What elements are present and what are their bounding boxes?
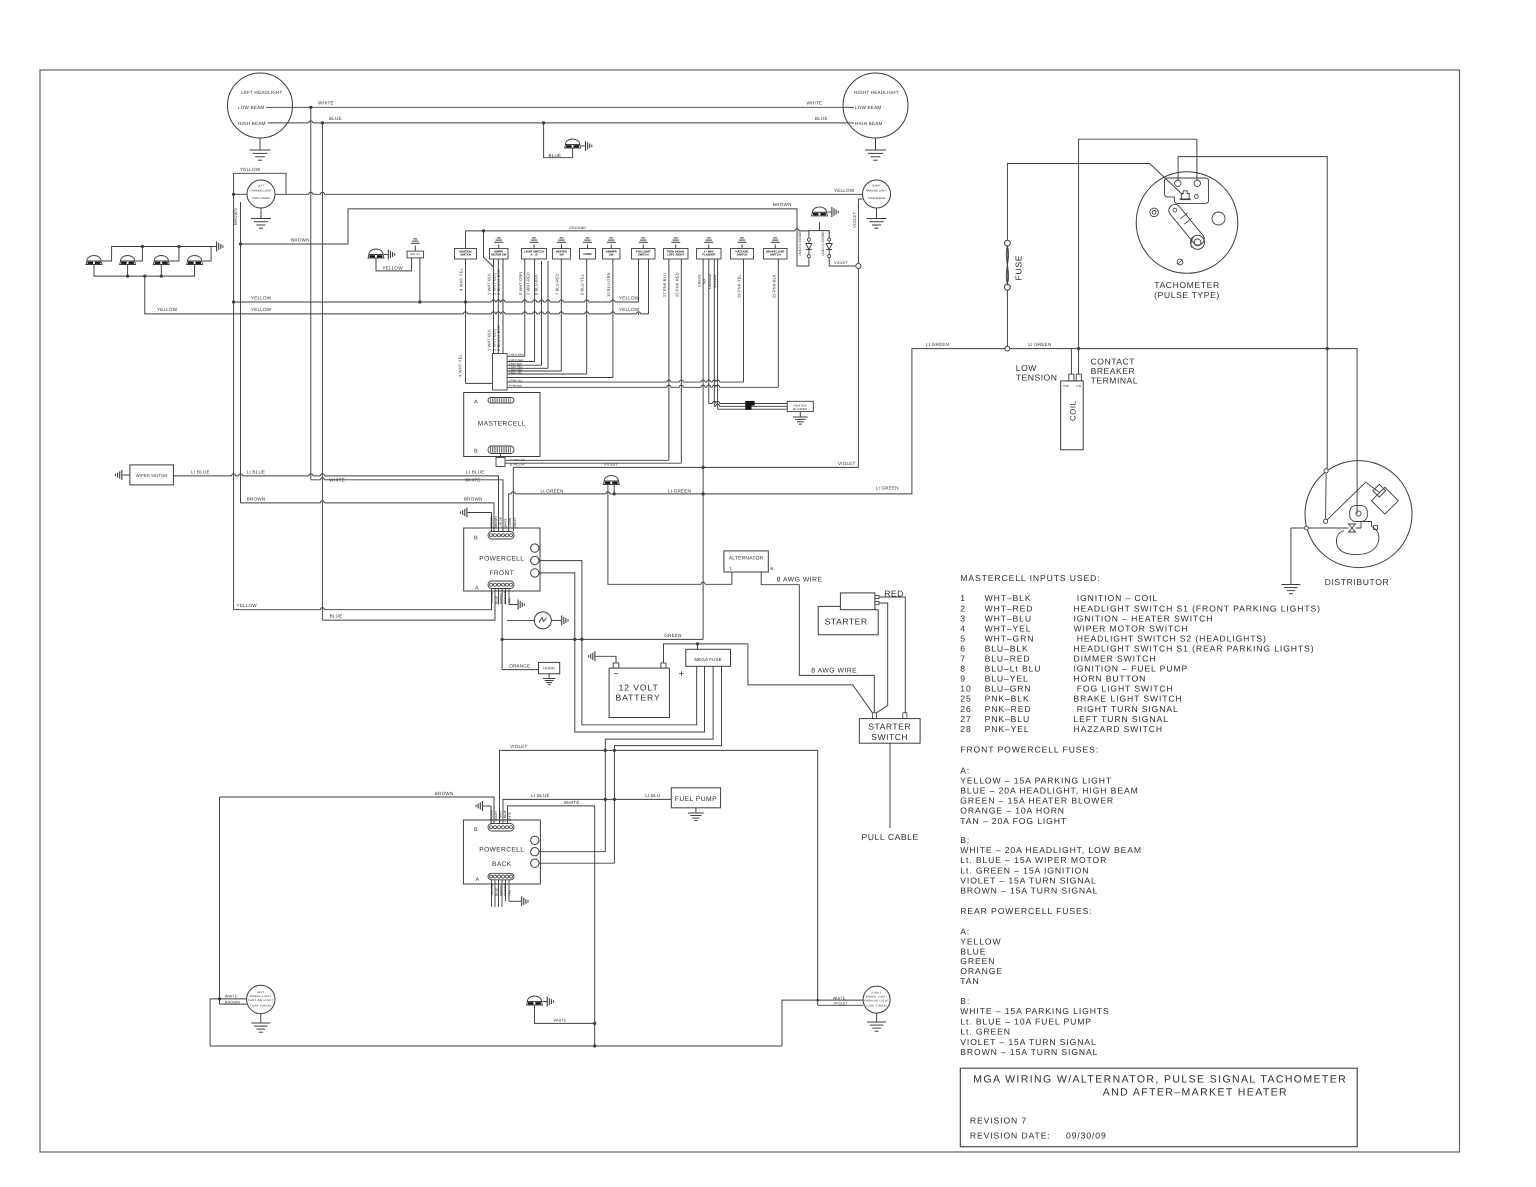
node blue bus tap xyxy=(321,121,324,124)
svg-text:7 BLU-RED: 7 BLU-RED xyxy=(554,273,559,295)
svg-text:RIGHT: RIGHT xyxy=(872,185,881,188)
svg-text:SWITCH: SWITCH xyxy=(460,254,471,257)
svg-text:ORANGE: ORANGE xyxy=(503,883,507,896)
svg-text:YELLOW: YELLOW xyxy=(619,307,640,312)
svg-text:BROWN: BROWN xyxy=(773,202,792,207)
right parking light / turn signal xyxy=(863,180,891,208)
wire pull cable xyxy=(889,743,891,828)
ground under left rear lamp xyxy=(260,1014,262,1023)
ground right of flasher xyxy=(551,619,561,621)
wire lamp right leg to lt green xyxy=(613,485,615,494)
svg-text:10: 10 xyxy=(960,684,971,694)
wire ORANGE to horn xyxy=(502,669,538,671)
svg-text:PULL CABLE: PULL CABLE xyxy=(862,832,919,842)
svg-text:VIOLET: VIOLET xyxy=(852,212,857,228)
svg-text:LEFT RIGHT: LEFT RIGHT xyxy=(667,254,684,257)
ground above switch box 6 xyxy=(610,245,612,249)
svg-text:8 PNK-BLK: 8 PNK-BLK xyxy=(509,385,523,388)
distributor condenser (diamond) xyxy=(1372,487,1399,514)
svg-text:WHITE: WHITE xyxy=(465,478,481,483)
title box xyxy=(960,1068,1357,1147)
svg-text:RIGHT TURN SIGNAL: RIGHT TURN SIGNAL xyxy=(1074,704,1179,714)
svg-text:A:: A: xyxy=(960,765,970,775)
wire powercell front circle2 to mega fuse (ring1) xyxy=(539,561,697,725)
tach terminal door xyxy=(1181,191,1189,199)
svg-text:YELLOW: YELLOW xyxy=(251,295,272,300)
svg-text:NO: NO xyxy=(703,278,707,284)
svg-text:BLU–Lt BLU: BLU–Lt BLU xyxy=(985,664,1042,674)
wire BLUE high-beam bus xyxy=(288,122,848,124)
wire mastercell fan row 3 xyxy=(507,364,541,366)
svg-text:8 AWG WIRE: 8 AWG WIRE xyxy=(777,576,823,583)
wire col 4 WHT-YEL xyxy=(465,259,467,383)
ground right of below-A cluster xyxy=(509,604,517,606)
svg-text:BLU–BLK: BLU–BLK xyxy=(985,643,1029,653)
switch box 1 xyxy=(455,249,477,260)
wire left rear lamp brown stub xyxy=(220,1003,247,1005)
svg-text:WHITE – 15A PARKING LIGHTS: WHITE – 15A PARKING LIGHTS xyxy=(960,1006,1109,1016)
svg-text:A B: A B xyxy=(531,254,538,257)
svg-text:WHITE: WHITE xyxy=(503,518,507,528)
svg-text:PARKING LIGHT: PARKING LIGHT xyxy=(864,1000,889,1003)
svg-text:28: 28 xyxy=(960,724,971,734)
svg-text:BROWN – 15A TURN SIGNAL: BROWN – 15A TURN SIGNAL xyxy=(960,886,1098,896)
wire lamp left leg to alternator field xyxy=(608,485,732,585)
wire alternator B 8AWG to starter switch xyxy=(761,572,874,713)
svg-text:9 BLU-YEL: 9 BLU-YEL xyxy=(509,371,523,374)
svg-text:BLUE: BLUE xyxy=(495,888,499,896)
svg-text:TACHOMETER: TACHOMETER xyxy=(1154,280,1220,290)
wire diodes to violet node xyxy=(829,258,855,266)
svg-text:Lt GREEN: Lt GREEN xyxy=(876,485,899,490)
svg-text:BROWN: BROWN xyxy=(233,208,238,225)
left headlight xyxy=(228,73,293,138)
lamp above diodes xyxy=(812,212,828,216)
wire mega fuse to powercell back mid (ring3) xyxy=(605,666,713,851)
solenoid terminals xyxy=(875,595,879,598)
svg-text:Lt BLUE: Lt BLUE xyxy=(247,469,266,474)
ground above switch box 3 xyxy=(533,245,535,249)
svg-text:SWITCH: SWITCH xyxy=(770,254,781,257)
svg-text:A: A xyxy=(474,400,478,406)
svg-text:6 BLU-Lt BLU: 6 BLU-Lt BLU xyxy=(496,269,501,295)
svg-text:WIPER MOTOR SWITCH: WIPER MOTOR SWITCH xyxy=(1074,623,1189,633)
fog lamp row xyxy=(86,261,102,265)
switch box 8 xyxy=(664,249,689,260)
svg-text:CB: CB xyxy=(1076,384,1081,388)
switch box 3 xyxy=(522,249,547,260)
right rear lamp xyxy=(863,986,890,1013)
svg-text:MGA WIRING W/ALTERNATOR, PU: MGA WIRING W/ALTERNATOR, PULSE SIGNAL TA… xyxy=(973,1074,1347,1086)
svg-text:SW: SW xyxy=(1063,384,1069,388)
relay box under mastercell B xyxy=(496,458,505,467)
wire YELLOW bus into powercell A xyxy=(234,605,492,610)
svg-text:Lt. BLUE – 15A WIPER MOTO: Lt. BLUE – 15A WIPER MOTOR xyxy=(960,855,1107,865)
svg-text:9 PNK-YEL: 9 PNK-YEL xyxy=(509,379,523,382)
ground under left parking light xyxy=(260,208,262,219)
svg-text:HORN: HORN xyxy=(543,667,555,671)
svg-text:B:: B: xyxy=(960,835,970,845)
svg-text:TURN SIGNAL: TURN SIGNAL xyxy=(252,197,271,200)
svg-text:TAN: TAN xyxy=(508,890,512,896)
svg-text:AND AFTER–MARKET HEATER: AND AFTER–MARKET HEATER xyxy=(1103,1087,1288,1099)
wire YELLOW parking bus xyxy=(234,193,247,195)
switch box 7 xyxy=(632,249,656,260)
wire violet from right parking light xyxy=(858,199,862,263)
svg-text:7: 7 xyxy=(960,654,966,664)
svg-text:IGNITION – HEATER SWITCH: IGNITION – HEATER SWITCH xyxy=(1074,613,1214,623)
svg-text:WHITE – 20A HEADLIGHT, LOW: WHITE – 20A HEADLIGHT, LOW BEAM xyxy=(960,845,1142,855)
svg-text:WHITE: WHITE xyxy=(318,101,334,106)
svg-text:B: B xyxy=(474,449,478,455)
svg-text:BRAKE LIGHT: BRAKE LIGHT xyxy=(866,996,888,999)
svg-text:TURN SIGNAL: TURN SIGNAL xyxy=(867,197,886,200)
svg-text:WIPER MOTOR: WIPER MOTOR xyxy=(136,473,168,478)
svg-text:BLUE: BLUE xyxy=(960,946,986,956)
svg-text:8 BLU-BLK: 8 BLU-BLK xyxy=(533,274,538,295)
below-A wires xyxy=(491,589,493,605)
svg-text:8 AWG WIRE: 8 AWG WIRE xyxy=(811,667,857,674)
svg-text:PARKING LIGHT: PARKING LIGHT xyxy=(866,190,887,193)
distributor rotor hook xyxy=(1349,524,1356,532)
svg-text:FLASHER: FLASHER xyxy=(702,254,715,257)
svg-text:HIGH BEAM: HIGH BEAM xyxy=(855,121,883,126)
wire back circle2 xyxy=(539,851,605,853)
wire ground tap to wiper switch col xyxy=(484,231,494,267)
svg-text:POWERCELL: POWERCELL xyxy=(479,847,524,854)
svg-text:B: B xyxy=(474,536,478,542)
svg-text:BACK: BACK xyxy=(492,861,512,868)
12 volt battery box xyxy=(609,668,669,717)
node violet (open) xyxy=(856,263,861,268)
ground above switch box 9 xyxy=(708,245,710,249)
node brown tee xyxy=(239,242,242,245)
svg-text:LEFT HEADLIGHT: LEFT HEADLIGHT xyxy=(241,90,283,95)
svg-text:YELLOW: YELLOW xyxy=(713,274,717,289)
svg-text:WHT–GRN: WHT–GRN xyxy=(985,633,1035,643)
wire tach pin1 to distributor xyxy=(1178,157,1327,469)
mega fuse top pin xyxy=(697,644,699,649)
wire BROWN drop to powercell xyxy=(241,503,495,532)
wire lt green into distributor xyxy=(1356,511,1358,514)
wire YELLOW lower bus xyxy=(234,313,649,315)
svg-text:SW: SW xyxy=(559,254,564,257)
powercell back output circles xyxy=(531,836,539,844)
wire blue to panel lamp xyxy=(544,123,573,158)
svg-text:LOW BEAM: LOW BEAM xyxy=(238,105,264,110)
ground above switch box 10 xyxy=(741,245,743,249)
svg-text:Lt GREEN: Lt GREEN xyxy=(668,489,691,494)
wire mastercell fan row 1 xyxy=(507,355,525,357)
svg-text:BLU–RED: BLU–RED xyxy=(985,654,1031,664)
svg-text:B: B xyxy=(770,566,773,571)
svg-text:26 PNK-RED: 26 PNK-RED xyxy=(674,272,679,297)
svg-text:WHT–BLK: WHT–BLK xyxy=(985,593,1032,603)
wire YELLOW upper bus xyxy=(234,301,639,303)
svg-text:YELLOW: YELLOW xyxy=(251,307,272,312)
svg-text:CONTACT: CONTACT xyxy=(1091,357,1136,367)
DISTRIBUTOR circle xyxy=(1305,461,1412,568)
svg-text:BATTERY: BATTERY xyxy=(616,693,661,703)
svg-text:SWITCH: SWITCH xyxy=(638,254,649,257)
svg-text:TAN: TAN xyxy=(508,598,512,604)
svg-text:RELAY: RELAY xyxy=(410,253,420,256)
ground under right rear lamp xyxy=(876,1013,878,1022)
svg-text:GREEN: GREEN xyxy=(960,956,995,966)
STARTER SWITCH box xyxy=(859,719,920,744)
svg-text:BLOWER: BLOWER xyxy=(793,407,808,411)
wire violet pin drop xyxy=(512,467,514,531)
svg-text:+: + xyxy=(679,669,685,680)
wire cols from light switch xyxy=(524,259,526,356)
COIL box xyxy=(1061,381,1084,450)
svg-text:POWERCELL: POWERCELL xyxy=(479,556,524,563)
svg-text:Lt BLUE: Lt BLUE xyxy=(531,793,550,798)
svg-text:LEFT: LEFT xyxy=(257,991,265,994)
ground left of battery xyxy=(594,651,596,661)
wire violet node down to violet bus xyxy=(857,269,859,468)
svg-text:2 WHT-RED: 2 WHT-RED xyxy=(509,359,523,362)
svg-text:−: − xyxy=(614,669,620,679)
svg-text:ORANGE: ORANGE xyxy=(708,273,712,289)
fog lamp bottom bus xyxy=(94,265,195,277)
wire 4 WHT-YEL into connector xyxy=(466,382,493,384)
ground under heater blower box xyxy=(799,412,801,417)
wire Lt BLUE wiper to powercell xyxy=(173,476,498,532)
diode 1N4001 left xyxy=(807,238,810,241)
ground under right headlight xyxy=(875,138,877,150)
panel lamp (high beam indicator) xyxy=(565,144,581,148)
HORN box xyxy=(539,662,560,673)
TACHOMETER circle xyxy=(1136,172,1238,274)
switch box 11 xyxy=(764,249,788,260)
svg-text:4: 4 xyxy=(960,623,966,633)
diode 1N4001 right xyxy=(828,238,831,241)
svg-text:(PULSE TYPE): (PULSE TYPE) xyxy=(1154,290,1220,300)
svg-text:WHT–BLU: WHT–BLU xyxy=(985,613,1032,623)
STARTER box xyxy=(818,606,878,634)
svg-text:PNK–BLK: PNK–BLK xyxy=(985,694,1030,704)
svg-text:10 BLU-GRN: 10 BLU-GRN xyxy=(606,272,611,297)
wire brown to left diode xyxy=(808,258,810,266)
tach bottom screw xyxy=(1177,259,1183,265)
wire hops xyxy=(492,301,496,303)
node blue tap for panel lamp xyxy=(542,121,545,124)
svg-text:LEFT TURN SIGNAL: LEFT TURN SIGNAL xyxy=(1074,714,1169,724)
svg-text:YELLOW – 15A PARKING LIGHT: YELLOW – 15A PARKING LIGHT xyxy=(960,775,1112,785)
heater blower box xyxy=(787,401,813,411)
svg-text:BLUE: BLUE xyxy=(549,153,562,158)
svg-text:BRAKE LIGHT SWITCH: BRAKE LIGHT SWITCH xyxy=(1074,694,1183,704)
svg-text:Lt BLU: Lt BLU xyxy=(645,793,660,798)
ground under left headlight xyxy=(259,138,261,150)
node circles on tach wire xyxy=(1324,469,1328,473)
svg-text:YELLOW: YELLOW xyxy=(240,167,261,172)
svg-text:5 WHT-GRN: 5 WHT-GRN xyxy=(518,272,523,295)
svg-text:Lt GREEN: Lt GREEN xyxy=(541,489,564,494)
wire GROUND bus for switches xyxy=(466,230,809,232)
wire Lt BLUE fuel pump xyxy=(503,799,671,823)
svg-text:YELLOW: YELLOW xyxy=(382,266,403,271)
svg-text:TAN – 20A FOG LIGHT: TAN – 20A FOG LIGHT xyxy=(960,816,1067,826)
switch box 10 xyxy=(731,249,754,260)
svg-text:MASTERCELL INPUTS USED:: MASTERCELL INPUTS USED: xyxy=(960,573,1100,583)
switch box 6 xyxy=(603,249,621,260)
svg-text:2: 2 xyxy=(960,603,966,613)
svg-text:Lt BLUE: Lt BLUE xyxy=(499,517,503,528)
svg-text:VIOLET: VIOLET xyxy=(838,461,856,466)
svg-text:BLUE: BLUE xyxy=(330,614,343,619)
POWERCELL FRONT box xyxy=(464,528,540,591)
svg-text:IGNITION – FUEL PUMP: IGNITION – FUEL PUMP xyxy=(1074,664,1189,674)
wire VIOLET bus lower xyxy=(500,750,818,823)
license plate lamp xyxy=(527,1001,543,1005)
svg-text:STARTER: STARTER xyxy=(868,722,911,732)
svg-text:VIOLET: VIOLET xyxy=(513,517,517,528)
wire Lt GREEN from powercell B xyxy=(509,349,1358,532)
svg-text:MOTOR SW: MOTOR SW xyxy=(491,254,506,257)
wire relay to turn signal switch left xyxy=(505,459,669,461)
svg-text:ORANGE: ORANGE xyxy=(960,966,1003,976)
wire relay to turn signal switch right xyxy=(505,462,681,464)
svg-text:HORN BUTTON: HORN BUTTON xyxy=(1074,674,1147,684)
MEGA FUSE box xyxy=(686,649,731,666)
svg-text:6: 6 xyxy=(960,643,966,653)
svg-text:YELLOW: YELLOW xyxy=(490,883,494,896)
wire fog return drop xyxy=(145,276,234,314)
svg-text:LOW: LOW xyxy=(1016,363,1037,373)
wire WHITE rear xyxy=(508,806,595,1046)
wire mastercell fan row 7 xyxy=(507,377,613,379)
distributor ground xyxy=(1305,526,1309,530)
svg-text:6 BLU-Lt BLU: 6 BLU-Lt BLU xyxy=(496,325,501,351)
node white bus tap xyxy=(309,106,312,109)
ground under horn xyxy=(548,674,550,679)
ground above switch box 8 xyxy=(675,245,677,249)
svg-text:Lt BLUE: Lt BLUE xyxy=(191,469,210,474)
svg-text:YELLOW: YELLOW xyxy=(490,591,494,604)
svg-text:SWITCH: SWITCH xyxy=(871,732,908,742)
svg-text:TAN: TAN xyxy=(960,976,979,986)
svg-text:5: 5 xyxy=(960,633,966,643)
svg-text:BLU–GRN: BLU–GRN xyxy=(985,684,1032,694)
wire col brake 25 PNK-BLK xyxy=(777,259,779,387)
connector blob on heater wires xyxy=(745,401,754,406)
switch box 5 xyxy=(580,249,596,260)
svg-text:PARKING LIGHT: PARKING LIGHT xyxy=(250,190,271,193)
ALTERNATOR box xyxy=(724,551,768,572)
wire white vertical drop xyxy=(310,107,312,480)
svg-text:B:: B: xyxy=(960,996,970,1006)
svg-text:WHT–RED: WHT–RED xyxy=(985,603,1034,613)
ground above switch box 11 xyxy=(774,245,776,249)
svg-text:BROWN: BROWN xyxy=(435,791,454,796)
svg-text:SWITCH: SWITCH xyxy=(737,254,748,257)
wire brown to right side xyxy=(241,209,806,266)
wire WHITE drop to powercell xyxy=(311,480,503,532)
svg-text:BROWN: BROWN xyxy=(494,517,498,529)
svg-text:BRAKE LIGHT: BRAKE LIGHT xyxy=(250,995,272,998)
svg-text:1N4001 DIODE: 1N4001 DIODE xyxy=(798,231,802,256)
tach screw left xyxy=(1150,208,1159,217)
svg-text:LOW BEAM: LOW BEAM xyxy=(855,105,881,110)
svg-text:A:: A: xyxy=(960,927,970,937)
svg-text:YELLOW: YELLOW xyxy=(157,307,178,312)
ground left of powercell front B xyxy=(466,508,468,518)
svg-text:Lt. GREEN – 15A IGNITION: Lt. GREEN – 15A IGNITION xyxy=(960,865,1089,875)
tach lever arm xyxy=(1169,204,1205,245)
wire right rear lamp violet stub xyxy=(818,1004,863,1006)
svg-text:A: A xyxy=(475,586,479,592)
svg-text:TURN SIGNAL: TURN SIGNAL xyxy=(250,1005,272,1008)
svg-text:VIOLET: VIOLET xyxy=(834,261,849,265)
svg-text:B: B xyxy=(474,827,478,833)
svg-text:PNK–YEL: PNK–YEL xyxy=(985,724,1030,734)
tach hole right xyxy=(1212,212,1225,225)
wire license lamp down xyxy=(535,1005,595,1023)
wire tach pin2 to coil CB xyxy=(1079,139,1197,374)
svg-text:27 PNK-BLU: 27 PNK-BLU xyxy=(662,273,667,297)
svg-text:5 WHT-GRN: 5 WHT-GRN xyxy=(509,354,524,357)
fog light lamp mid xyxy=(368,254,384,258)
svg-text:ORANGE: ORANGE xyxy=(509,663,530,668)
svg-text:HEADLIGHT SWITCH S2 (HEADLI: HEADLIGHT SWITCH S2 (HEADLIGHTS) xyxy=(1074,633,1267,643)
node ground bus tap xyxy=(482,229,485,232)
wire violet drop to right rear lamp xyxy=(817,750,819,1005)
distributor internal link xyxy=(1326,482,1380,521)
wire cols flasher unit xyxy=(702,259,704,639)
wire GREEN bus xyxy=(502,638,703,640)
right headlight xyxy=(843,73,908,138)
tach arm pivot rings xyxy=(1191,235,1205,249)
svg-text:FRONT POWERCELL FUSES:: FRONT POWERCELL FUSES: xyxy=(960,744,1099,754)
svg-text:09/30/09: 09/30/09 xyxy=(1066,1131,1107,1141)
svg-text:ORANGE – 10A HORN: ORANGE – 10A HORN xyxy=(960,806,1065,816)
svg-text:28 PNK-YEL: 28 PNK-YEL xyxy=(737,274,742,298)
svg-text:FUEL PUMP: FUEL PUMP xyxy=(675,796,717,803)
wire 25 PNK-BLK brake run xyxy=(777,386,779,388)
svg-text:27: 27 xyxy=(960,714,971,724)
wire mastercell B to relay xyxy=(500,454,502,458)
ground above switch box 2 xyxy=(498,245,500,249)
wire col dimmer 7 BLU-RED xyxy=(560,259,562,371)
bottom white bus xyxy=(210,1045,782,1047)
svg-text:HIGH BEAM: HIGH BEAM xyxy=(238,121,266,126)
wire right rear lamp white xyxy=(782,1000,863,1046)
svg-text:BROWN: BROWN xyxy=(291,238,310,243)
svg-text:25 PNK-BLK: 25 PNK-BLK xyxy=(771,274,776,298)
svg-text:WHITE: WHITE xyxy=(554,1019,567,1023)
svg-text:WHITE: WHITE xyxy=(225,994,238,998)
svg-text:REAR POWERCELL FUSES:: REAR POWERCELL FUSES: xyxy=(960,906,1092,916)
svg-text:8: 8 xyxy=(960,664,966,674)
ground left of wiper motor xyxy=(123,474,130,476)
svg-text:COIL: COIL xyxy=(1068,400,1077,421)
switch box 2 xyxy=(490,249,509,260)
svg-text:3: 3 xyxy=(960,613,966,623)
wire diode top bus xyxy=(809,231,829,239)
svg-text:Lt GREEN: Lt GREEN xyxy=(926,342,949,347)
wire brown down to left rear lamp xyxy=(219,797,221,1004)
svg-text:9: 9 xyxy=(960,674,966,684)
left rear lamp xyxy=(247,985,275,1013)
wiper motor box xyxy=(130,465,174,485)
svg-text:VIOLET: VIOLET xyxy=(604,462,619,466)
MASTERCELL box xyxy=(464,393,540,457)
wire fuse riser xyxy=(1007,164,1182,349)
ground above headlamp relay box xyxy=(414,246,416,252)
svg-text:Lt BLUE: Lt BLUE xyxy=(466,469,485,474)
